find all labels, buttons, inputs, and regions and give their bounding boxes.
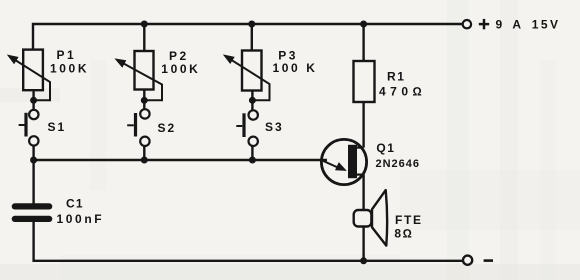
svg-text:470Ω: 470Ω (379, 84, 426, 98)
resistor R1 body (354, 61, 375, 102)
wire top bus (33, 24, 462, 50)
terminal - supply (463, 256, 472, 265)
wire mid bus (emitter bus) (34, 159, 327, 161)
switch S3 (249, 110, 258, 146)
transistor Q1 base1 lead (356, 174, 364, 176)
node below P3 (249, 97, 256, 104)
wire speaker to bottom bus (362, 227, 364, 261)
potentiometer P1 body (23, 50, 43, 91)
wire C1 top lead (32, 160, 34, 204)
wire right column R1 top (362, 24, 364, 61)
potentiometer P1 wiper arrow (12, 58, 50, 100)
node mid bus S1 (30, 157, 37, 164)
wire S3 bottom (251, 146, 253, 160)
terminal + supply (463, 20, 471, 28)
svg-text:Q1: Q1 (376, 141, 395, 155)
potentiometer P2 body (135, 51, 154, 90)
wire P2 bottom (143, 90, 145, 110)
svg-text:S1: S1 (48, 120, 67, 134)
svg-text:100nF: 100nF (57, 212, 105, 226)
svg-text:FTE: FTE (395, 213, 423, 227)
node top bus R1 (360, 21, 367, 28)
wire S1 bottom (32, 146, 34, 160)
label minus (484, 259, 493, 262)
switch S1 (29, 110, 38, 146)
wire Q1 base1 to speaker (362, 175, 364, 210)
svg-text:2N2646: 2N2646 (376, 158, 421, 170)
wire column2 top (143, 24, 145, 51)
svg-text:9: 9 (496, 18, 503, 32)
transistor Q1 base bar (348, 145, 357, 178)
wire P1 bottom (32, 90, 34, 110)
wire column3 top (251, 24, 253, 51)
svg-text:R1: R1 (387, 69, 406, 83)
wire bottom bus (34, 222, 463, 261)
transistor Q1 emitter arrow (323, 161, 340, 169)
capacitor C1 plates (15, 203, 49, 209)
wire S2 bottom (143, 146, 145, 160)
svg-text:100K: 100K (50, 61, 89, 75)
node below P1 (30, 97, 37, 104)
transistor Q1 circle (321, 139, 366, 184)
label +9 A 15V (479, 23, 489, 26)
potentiometer P3 wiper arrow (228, 58, 270, 101)
svg-text:100 K: 100 K (273, 61, 318, 75)
wire R1 bottom to Q1 base2 (362, 102, 364, 148)
node mid bus S2 (141, 157, 148, 164)
node top bus P2 (141, 21, 148, 28)
svg-text:P2: P2 (169, 49, 189, 63)
wire P3 bottom (251, 91, 253, 111)
potentiometer P2 wiper arrow (120, 62, 162, 101)
transistor Q1 base2 lead (356, 147, 364, 149)
speaker FTE magnet (354, 210, 372, 227)
svg-text:100K: 100K (161, 62, 200, 76)
svg-text:8Ω: 8Ω (394, 227, 413, 241)
svg-text:S2: S2 (158, 121, 177, 135)
svg-text:15V: 15V (532, 18, 561, 32)
svg-text:P1: P1 (57, 48, 77, 62)
node bottom bus speaker (360, 257, 367, 264)
potentiometer P3 body (242, 51, 262, 91)
node below P2 (141, 97, 148, 104)
svg-text:S3: S3 (265, 120, 284, 134)
switch S2 (140, 109, 149, 146)
svg-text:A: A (512, 18, 521, 32)
speaker FTE cone (372, 190, 387, 246)
node mid bus S3 (249, 157, 256, 164)
svg-text:C1: C1 (66, 196, 84, 210)
node top bus P3 (248, 21, 255, 28)
